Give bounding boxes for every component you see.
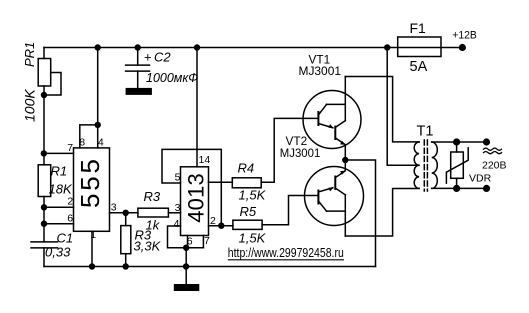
svg-text:100K: 100K: [22, 89, 38, 122]
node pins 6/7 junction: [183, 245, 189, 251]
svg-text:1,5K: 1,5K: [239, 231, 267, 246]
node pin2 junction: [218, 223, 224, 229]
svg-text:2: 2: [67, 196, 73, 208]
capacitor C1: [31, 242, 58, 267]
wire 555 pin6: [44, 223, 74, 225]
resistor R3b 3.3K: [121, 213, 131, 267]
svg-text:4: 4: [98, 136, 104, 148]
transistor VT2 (Darlington, mirrored): [305, 160, 364, 236]
svg-text:R4: R4: [238, 161, 255, 176]
node VT1 emitter / VT2 emitter junction: [342, 157, 348, 163]
ground below C2: [126, 88, 152, 95]
transistor VT1 (Darlington): [303, 77, 361, 161]
svg-text:R3: R3: [144, 189, 161, 204]
svg-text:3: 3: [111, 202, 117, 214]
wire 4013 pin14 riser: [196, 48, 198, 167]
svg-text:+12В: +12В: [452, 30, 477, 42]
wire 555 pin7: [44, 152, 74, 154]
wire 4013 pin6: [187, 236, 189, 248]
wire 4013 to R4: [209, 181, 233, 183]
svg-text:R5: R5: [240, 204, 257, 219]
terminal output bottom: [483, 185, 490, 192]
wire secondary top: [432, 141, 487, 143]
svg-text:3,3K: 3,3K: [134, 239, 162, 254]
wire R4 to VT1 base: [261, 118, 318, 182]
node PR1 wiper junction: [41, 92, 47, 98]
svg-text:http://www.299792458.ru: http://www.299792458.ru: [228, 246, 344, 260]
wire R3 to 4013 pin3: [168, 212, 180, 214]
terminal +12V: [459, 44, 466, 51]
svg-text:6: 6: [187, 236, 193, 248]
transformer T1 primary winding: [414, 142, 419, 188]
wire 555 pin3: [110, 212, 138, 214]
node R3 junction: [123, 210, 129, 216]
node supply rail at 4013 riser: [194, 44, 200, 50]
resistor R1: [38, 165, 51, 197]
wire left rail PR1 to R1: [43, 95, 45, 165]
wire emitter junction to ground rail: [345, 160, 375, 267]
wire 4013 pin7: [202, 236, 204, 248]
wire 4013 pin2: [209, 225, 233, 227]
svg-text:7: 7: [67, 142, 73, 154]
svg-text:5: 5: [175, 172, 181, 184]
wire url underline: [228, 259, 344, 261]
resistor R3 1k: [138, 208, 169, 217]
node VDR bottom: [453, 185, 460, 192]
wire junction to bottom rail: [185, 248, 187, 284]
wire 555 pin1: [91, 231, 93, 266]
node pin6 branch: [41, 221, 47, 227]
transformer T1 secondary winding: [432, 142, 438, 188]
svg-text:5A: 5A: [410, 59, 428, 75]
svg-text:8: 8: [79, 136, 85, 148]
node supply at F1: [384, 44, 390, 50]
svg-text:4: 4: [174, 218, 180, 230]
wire 4013 pin5 feedback loop: [162, 149, 221, 225]
node R3b on bottom rail: [123, 263, 129, 269]
node pin7 branch: [41, 150, 47, 156]
svg-text:C1: C1: [57, 231, 74, 246]
svg-text:F1: F1: [410, 20, 427, 36]
node 4013 gnd on bottom rail: [183, 263, 189, 269]
ground below 4013: [174, 284, 200, 291]
svg-text:6: 6: [67, 213, 73, 225]
wire VT2 collector to transformer bottom: [345, 189, 419, 237]
op-amp U1 555 body: [74, 148, 110, 231]
node 555 pin1 on bottom rail: [89, 263, 95, 269]
node supply rail at riser: [95, 44, 101, 50]
wire 555 pin4 riser: [97, 48, 99, 148]
fuse F1: [398, 37, 441, 57]
capacitor C2: [126, 48, 150, 88]
resistor R5: [233, 220, 262, 229]
node VDR top: [453, 138, 460, 145]
svg-text:555: 555: [75, 156, 105, 208]
wire secondary bottom: [432, 187, 487, 189]
svg-text:PR1: PR1: [22, 42, 37, 67]
wire VT1 collector to transformer top: [345, 77, 419, 142]
wire 555 pin2: [44, 206, 74, 208]
svg-text:VDR: VDR: [469, 173, 492, 185]
svg-text:4013: 4013: [184, 173, 209, 223]
wire 4013 pin4 bracket: [168, 226, 204, 248]
svg-text:T1: T1: [417, 123, 434, 139]
wire F1 junction to center tap: [387, 48, 419, 166]
wire top supply rail: [44, 47, 462, 49]
resistor R4: [232, 178, 261, 188]
svg-text:1,5K: 1,5K: [239, 188, 267, 203]
svg-text:1000мкФ: 1000мкФ: [146, 71, 198, 85]
svg-text:R1: R1: [51, 164, 68, 179]
svg-text:18K: 18K: [49, 182, 73, 197]
svg-text:2: 2: [210, 215, 216, 227]
wire R5 to VT2 base: [262, 196, 318, 225]
potentiometer PR1: [38, 48, 61, 96]
svg-text:1: 1: [90, 229, 96, 241]
svg-text:3: 3: [175, 202, 181, 214]
varistor VDR: [446, 142, 468, 188]
transformer T1 core: [423, 140, 425, 191]
svg-text:MJ3001: MJ3001: [299, 64, 342, 78]
terminal output top: [483, 138, 490, 145]
wire bottom rail: [44, 266, 376, 268]
node pin8/4 junction: [95, 122, 101, 128]
svg-text:220В: 220В: [482, 160, 507, 172]
node pin2 branch: [41, 204, 47, 210]
svg-text:MJ3001: MJ3001: [280, 146, 321, 160]
wire 555 pin8: [80, 125, 98, 148]
wire R1 to C1: [43, 197, 45, 242]
AC wave symbol: [484, 148, 502, 150]
svg-text:7: 7: [204, 235, 210, 247]
node C2 on supply rail: [135, 44, 141, 50]
flip-flop U2 4013 body: [181, 167, 209, 236]
svg-text:+: +: [144, 50, 152, 65]
svg-text:0,33: 0,33: [45, 245, 71, 260]
svg-text:C2: C2: [154, 50, 171, 65]
svg-text:14: 14: [199, 154, 211, 166]
